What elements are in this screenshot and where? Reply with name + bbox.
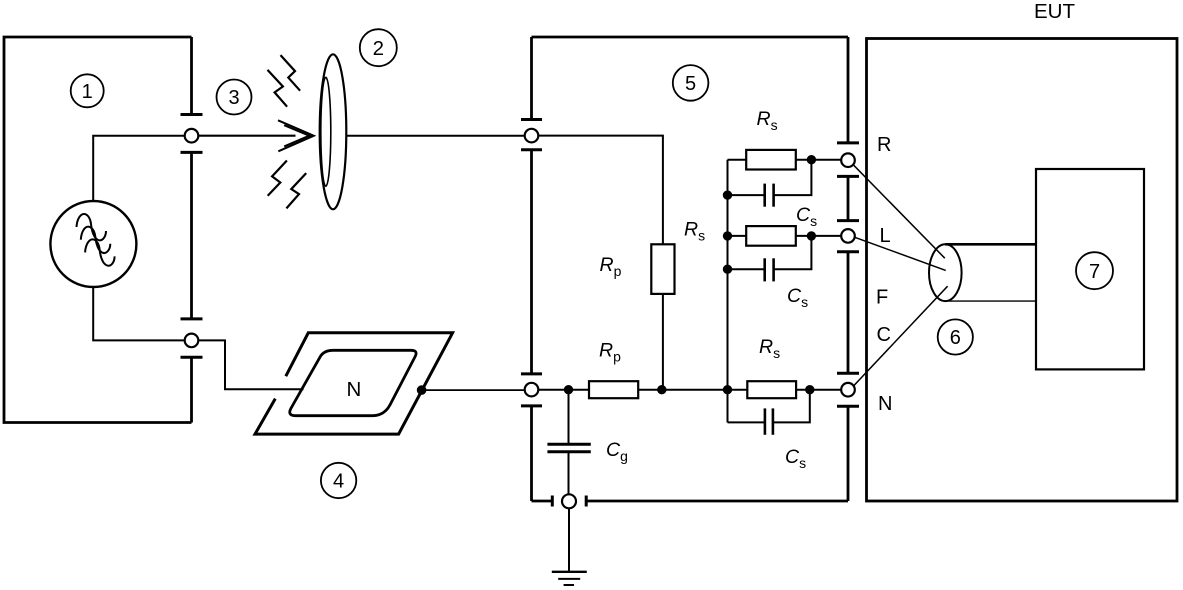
capacitor Cs middle right plate (772, 258, 775, 281)
circled label 1 (71, 74, 104, 107)
junction dot bottom Rs right (805, 385, 814, 394)
CDN bottom edge left segment (532, 500, 553, 503)
wire top Rs right lead to terminal R (796, 159, 841, 161)
plate below CDN input port (521, 148, 542, 151)
wire left bus vertical (727, 160, 729, 423)
wire generator top to port 1 (93, 136, 185, 202)
terminal plate below output port 1 (181, 151, 203, 154)
svg-text:4: 4 (333, 471, 344, 493)
svg-text:F: F (876, 287, 888, 309)
svg-text:Rs: Rs (759, 336, 780, 361)
wire middle Rs left lead (728, 235, 747, 237)
svg-text:Cs: Cs (785, 446, 806, 471)
wire Rp vertical bottom lead (662, 294, 664, 390)
plate left of ground port (551, 496, 554, 507)
ground symbol bar 2 (558, 578, 580, 580)
wire input port to Rp branch top (538, 136, 663, 245)
svg-text:L: L (880, 225, 891, 247)
svg-text:EUT: EUT (1034, 0, 1075, 23)
CDN input port circle (525, 129, 539, 143)
CDN right edge segment L-N (847, 252, 850, 374)
svg-text:Rp: Rp (599, 340, 621, 365)
CDN bottom edge right segment (586, 500, 848, 503)
plate above terminal N (837, 372, 859, 375)
junction dot Cg branch (564, 385, 573, 394)
circled label 2 (360, 29, 397, 66)
plate below terminal N (837, 405, 859, 408)
CDN right edge top segment (847, 37, 850, 143)
junction dot top Rs right (807, 155, 816, 164)
capacitor Cs bottom left plate (764, 408, 767, 434)
wire lens to CDN input port (346, 135, 524, 137)
plate above terminal L (837, 219, 859, 222)
wire plane to CDN neutral port (422, 389, 525, 391)
plate below terminal R (837, 175, 859, 178)
CDN left edge middle segment (530, 150, 533, 374)
CDN right edge bottom segment (847, 406, 850, 501)
svg-text:2: 2 (373, 37, 384, 60)
ground port circle (562, 494, 576, 508)
wire top Cs right riser (774, 160, 812, 195)
spark bolt upper left (268, 70, 288, 107)
CDN box (5) top edge (532, 36, 849, 39)
generator box right edge lower segment (190, 357, 193, 422)
capacitor Cs middle left plate (763, 258, 766, 281)
lead wire terminal R to connector (853, 164, 945, 258)
resistor Rp vertical body (651, 244, 674, 294)
svg-text:Cs: Cs (787, 285, 808, 310)
wire top Cs left lead (728, 194, 765, 196)
source waveform squiggle b (81, 227, 111, 253)
resistor Rp horizontal body (589, 381, 638, 398)
svg-text:Cs: Cs (796, 204, 817, 229)
junction dot on plane right edge (417, 385, 427, 395)
lead wire terminal L to connector (855, 237, 946, 270)
terminal plate above output port 1 (181, 113, 203, 116)
svg-text:N: N (878, 393, 892, 415)
wire middle Cs left lead (728, 268, 765, 270)
connector plug ellipse (6) (929, 244, 962, 301)
junction dot middle Cs left (723, 265, 732, 274)
wire port 2 step down to coupling plane (198, 340, 303, 389)
terminal N circle (841, 383, 855, 397)
wire neutral rail (538, 389, 841, 391)
ground symbol bar 1 (552, 571, 587, 573)
surge generator source G (50, 201, 136, 287)
coupling plane outer parallelogram (255, 333, 453, 434)
CDN left edge lower segment (530, 406, 533, 501)
output port 2 circle (185, 334, 199, 348)
wire Cg to ground port (568, 452, 570, 495)
generator box right edge middle segment (190, 152, 193, 319)
terminal L circle (841, 229, 855, 243)
CDN right edge segment R-L (847, 176, 850, 220)
EUT enclosure box (867, 39, 1178, 502)
svg-text:7: 7 (1089, 261, 1100, 283)
wire port 1 to spark arrow (198, 135, 295, 137)
svg-text:6: 6 (950, 327, 961, 349)
plate above CDN input port (521, 118, 542, 121)
plate above CDN neutral port (521, 372, 542, 375)
plate below terminal L (837, 250, 859, 253)
generator box right edge upper segment (190, 37, 193, 115)
EUT inner unit box (7) (1036, 169, 1144, 369)
svg-text:C: C (877, 324, 891, 346)
svg-text:5: 5 (685, 73, 696, 95)
plate below CDN neutral port (521, 404, 542, 407)
svg-text:Rs: Rs (684, 219, 705, 244)
resistor Rs middle body (746, 226, 796, 246)
capacitor Cs top left plate (763, 184, 766, 207)
generator box (1) outline (4, 37, 192, 423)
circled label 7 (1076, 252, 1113, 289)
wire bottom Cs left lead (728, 421, 765, 423)
capacitor Cs top right plate (772, 184, 775, 207)
svg-text:N: N (347, 378, 362, 401)
wire bottom Cs right riser (773, 390, 810, 423)
resistor Rs top body (746, 150, 796, 170)
source waveform squiggle a (77, 214, 107, 240)
lead wire terminal N to connector (853, 286, 947, 386)
ground symbol bar 3 (564, 584, 574, 586)
power cable bottom line (945, 300, 1036, 302)
injection arrowhead outer chevron (278, 120, 314, 151)
svg-text:Cg: Cg (606, 439, 628, 464)
coupling lens inner ellipse (321, 77, 331, 186)
spark bolt upper right (281, 55, 301, 91)
junction dot middle Rs left (723, 231, 732, 240)
circled label 4 (321, 463, 356, 498)
resistor Rs bottom body (747, 381, 796, 398)
wire Cg branch down (568, 390, 570, 445)
capacitor Cg bottom plate (547, 450, 590, 453)
capacitor Cs bottom right plate (772, 408, 775, 434)
svg-text:Rp: Rp (600, 254, 622, 279)
wire middle Cs right riser (774, 236, 812, 269)
capacitor Cg top plate (547, 443, 590, 446)
svg-text:Rs: Rs (757, 108, 778, 133)
wire ground port to earth (568, 508, 570, 571)
plate right of ground port (585, 496, 588, 507)
svg-text:1: 1 (82, 81, 93, 103)
junction dot Rp branch (657, 385, 666, 394)
injection arrowhead inner chevron (284, 125, 309, 146)
CDN neutral port circle (525, 383, 539, 397)
svg-text:R: R (877, 134, 891, 156)
CDN left edge upper segment (530, 37, 533, 120)
output port 1 circle (185, 129, 199, 143)
source waveform squiggle c (85, 239, 115, 265)
wire top Rs left lead (728, 159, 747, 161)
circled label 6 (938, 319, 973, 354)
plate above terminal R (837, 141, 859, 144)
coupling lens outer ellipse (2) (320, 54, 347, 209)
terminal plate below output port 2 (181, 356, 203, 359)
power cable top line (945, 243, 1036, 246)
terminal R circle (841, 153, 855, 167)
coupling plane inner plate N (290, 350, 416, 415)
junction dot top Cs left (723, 190, 732, 199)
circled label 3 (217, 80, 252, 115)
junction dot middle Rs right (807, 231, 816, 240)
junction dot neutral bus left (723, 385, 732, 394)
spark bolt lower left (268, 161, 287, 196)
wire middle Rs right lead to terminal L (796, 235, 841, 237)
wire generator bottom to port 2 (93, 287, 185, 341)
svg-text:3: 3 (228, 87, 239, 109)
terminal plate above output port 2 (181, 317, 203, 320)
spark bolt lower right (286, 173, 306, 208)
circled label 5 (673, 65, 709, 101)
